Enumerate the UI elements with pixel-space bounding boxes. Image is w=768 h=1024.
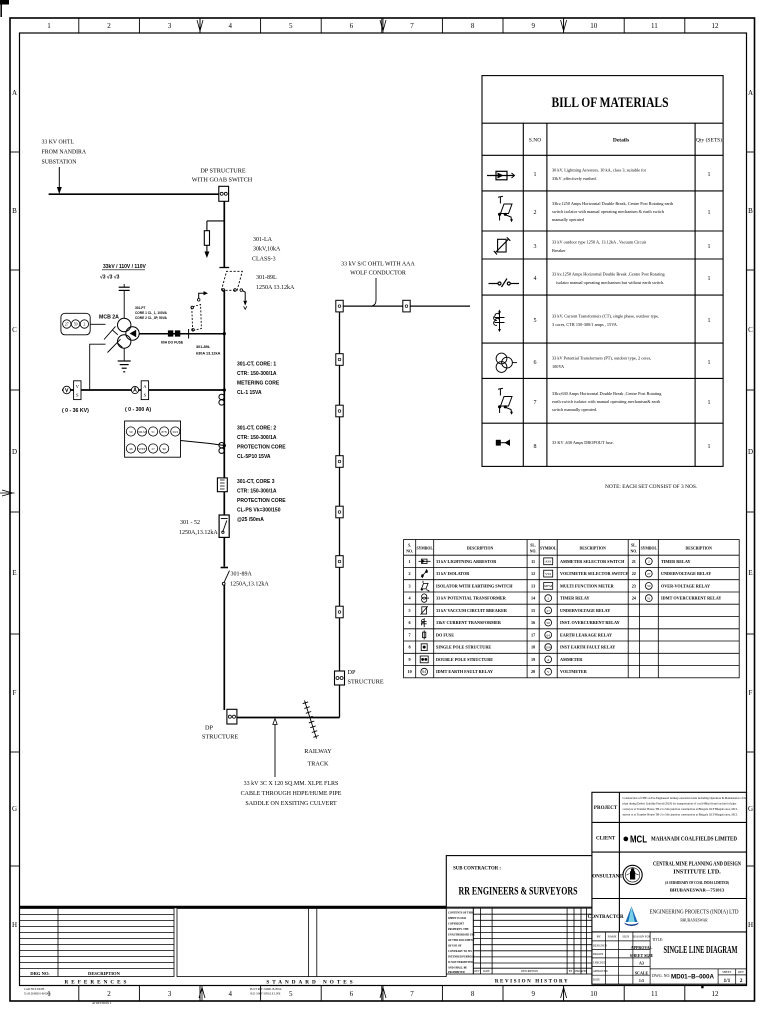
DP structure box (GOAB)	[219, 186, 229, 201]
right top horizontal wire	[340, 305, 471, 307]
svg-text:7: 7	[410, 22, 414, 30]
svg-text:E: E	[748, 569, 752, 577]
svg-text:5: 5	[289, 22, 293, 30]
svg-text:D: D	[12, 448, 17, 456]
svg-text:DESCRIPTION: DESCRIPTION	[88, 971, 121, 976]
svg-text:SYMBOL: SYMBOL	[641, 547, 658, 551]
svg-text:51: 51	[647, 597, 651, 601]
svg-text:3: 3	[168, 22, 172, 30]
svg-text:ENGINEERING PROJECTS (INDIA) L: ENGINEERING PROJECTS (INDIA) LTD	[650, 909, 739, 916]
svg-text:PROPERTY. THE: PROPERTY. THE	[448, 928, 469, 931]
CT core2	[219, 443, 224, 448]
svg-text:2: 2	[409, 571, 411, 576]
svg-text:21: 21	[632, 559, 636, 564]
svg-text:20: 20	[531, 669, 535, 674]
bottom left small table	[592, 932, 747, 984]
svg-text:(A SUBSIDIARY OF COAL INDIA: (A SUBSIDIARY OF COAL INDIA LIMITED)	[665, 880, 729, 885]
svg-text:DESIGNED: DESIGNED	[593, 945, 607, 948]
svg-text:STRUCTURE: STRUCTURE	[348, 679, 384, 686]
svg-text:X:\SLD\MD01-B-000A: X:\SLD\MD01-B-000A	[24, 993, 51, 996]
tick before isolator	[188, 329, 190, 339]
svg-text:CTR: 150-300/1A: CTR: 150-300/1A	[237, 435, 277, 441]
svg-text:33 kV VACCUM CIRCUIT BREAKER: 33 kV VACCUM CIRCUIT BREAKER	[436, 608, 508, 613]
svg-text:A3: A3	[639, 961, 644, 966]
svg-text:12: 12	[712, 990, 720, 998]
svg-text:STRUCTURE: STRUCTURE	[202, 734, 238, 741]
svg-text:18: 18	[531, 645, 535, 650]
svg-text:MAHANADI COALFIELDS LIMITED: MAHANADI COALFIELDS LIMITED	[651, 836, 737, 843]
svg-text:METERING CORE: METERING CORE	[237, 381, 280, 387]
incoming arrow	[58, 167, 60, 189]
svg-text:630A 13.12kA: 630A 13.12kA	[196, 352, 221, 356]
protection relay group	[125, 421, 181, 457]
svg-text:1:5: 1:5	[639, 978, 644, 983]
svg-text:AMMETER: AMMETER	[560, 657, 583, 662]
svg-text:64: 64	[422, 670, 426, 674]
svg-text:SHEET IS OUR: SHEET IS OUR	[448, 917, 466, 920]
BOM symbol row7: isolator with earth switch 630A	[498, 388, 513, 415]
svg-text:TITLE:: TITLE:	[652, 938, 663, 942]
svg-text:Construction of CHP on Pre-Eng: Construction of CHP on Pre-Engineered tu…	[623, 796, 748, 800]
svg-text:CTR: 150-300/1A: CTR: 150-300/1A	[237, 371, 277, 377]
svg-text:301-89L: 301-89L	[196, 345, 211, 349]
svg-text:REV: REV	[474, 970, 479, 973]
centring marks	[0, 18, 567, 1001]
svg-text:2: 2	[107, 22, 111, 30]
svg-text:33 kV LIGHTNING ARRESTOR: 33 kV LIGHTNING ARRESTOR	[436, 559, 497, 564]
junction node metering tap	[223, 388, 226, 391]
svg-text:manually operated: manually operated	[552, 217, 585, 222]
svg-text:B: B	[12, 207, 17, 215]
side grid dividers	[10, 152, 755, 866]
svg-text:27: 27	[547, 609, 551, 613]
svg-text:CL-1 15VA: CL-1 15VA	[237, 390, 262, 396]
svg-text:CONSULTANT: CONSULTANT	[589, 875, 624, 880]
svg-text:S.NO: S.NO	[529, 138, 541, 144]
svg-text:VOLTMETER: VOLTMETER	[560, 669, 588, 674]
BOM details text	[552, 168, 674, 447]
svg-text:CL-5P10 15VA: CL-5P10 15VA	[237, 454, 271, 460]
svg-text:87N: 87N	[161, 430, 167, 434]
svg-text:INSTITUTE LTD.: INSTITUTE LTD.	[673, 870, 721, 876]
earthing above PT	[123, 284, 125, 287]
svg-text:2: 2	[83, 323, 85, 327]
earth switch of 89L (right side hook with down arrow)	[240, 289, 243, 292]
svg-text:WITH GOAB SWITCH: WITH GOAB SWITCH	[192, 177, 253, 184]
svg-text:301-CT, CORE: 2: 301-CT, CORE: 2	[237, 426, 276, 432]
svg-text:27: 27	[152, 447, 156, 451]
svg-text:STANDARD NOTES: STANDARD NOTES	[266, 980, 355, 986]
svg-text:SCALE: SCALE	[635, 971, 649, 976]
svg-text:50: 50	[547, 621, 551, 625]
svg-text:AMMETER SELECTOR SWITCH: AMMETER SELECTOR SWITCH	[560, 559, 625, 564]
wire incoming horizontal	[49, 193, 219, 195]
tiny footer texts	[24, 988, 282, 1005]
svg-text:D: D	[748, 448, 753, 456]
svg-text:VSS: VSS	[545, 572, 551, 576]
BOM symbol row1: lightning arrestor	[487, 171, 515, 180]
svg-text:REFERENCES: REFERENCES	[65, 980, 130, 986]
svg-text:19: 19	[531, 657, 535, 662]
svg-text:UNDERVOLTAGE RELAY: UNDERVOLTAGE RELAY	[560, 608, 610, 613]
svg-text:6: 6	[350, 22, 354, 30]
svg-text:S: S	[76, 393, 79, 398]
svg-text:1: 1	[47, 22, 51, 30]
svg-text:50: 50	[129, 430, 133, 434]
svg-text:Details: Details	[613, 138, 629, 144]
svg-text:8: 8	[534, 444, 537, 450]
svg-text:5: 5	[409, 608, 411, 613]
svg-text:SL.: SL.	[631, 544, 637, 548]
svg-text:NAME: NAME	[608, 935, 617, 939]
svg-text:Qty (SETS): Qty (SETS)	[696, 137, 722, 144]
voltmeter	[63, 386, 71, 394]
svg-text:4: 4	[228, 990, 232, 998]
BOM symbol row4: isolator without earth	[489, 279, 520, 288]
svg-text:S: S	[144, 393, 147, 398]
svg-text:301-PT: 301-PT	[135, 306, 146, 310]
isolator 301-89L parallelogram	[221, 271, 242, 290]
svg-text:9: 9	[531, 990, 535, 998]
svg-text:1: 1	[708, 244, 711, 250]
svg-text:33 kV S/C OHTL WITH AAA: 33 kV S/C OHTL WITH AAA	[341, 262, 415, 268]
svg-text:CORE 2 CL_3P, 50VA: CORE 2 CL_3P, 50VA	[135, 316, 167, 320]
svg-text:PLOT REF: MD01-B-000A: PLOT REF: MD01-B-000A	[250, 988, 282, 991]
svg-text:BY: BY	[569, 970, 573, 973]
svg-text:11: 11	[531, 559, 535, 564]
svg-text:SADDLE ON EXSITING CULVERT: SADDLE ON EXSITING CULVERT	[245, 801, 337, 807]
svg-text:301-89L: 301-89L	[256, 275, 277, 281]
svg-text:OF THIS DOCUMENT: OF THIS DOCUMENT	[448, 939, 475, 942]
svg-text:TIMER RELAY: TIMER RELAY	[560, 596, 590, 601]
svg-text:7: 7	[410, 990, 414, 998]
svg-text:1/1: 1/1	[723, 978, 730, 984]
copyright box	[446, 908, 473, 974]
PT core label	[135, 306, 168, 320]
bottom grid dividers	[79, 986, 685, 1002]
BOM S.NO numbers	[534, 172, 537, 450]
CT core3	[217, 478, 227, 492]
wire down to DP	[223, 585, 225, 710]
svg-text:APPROVED: APPROVED	[593, 970, 608, 973]
standard notes boxes	[177, 909, 446, 977]
svg-text:BHUBANESWAR: BHUBANESWAR	[680, 919, 708, 923]
grid numbers bottom	[47, 990, 719, 998]
DP structure with GOAB label	[192, 168, 253, 184]
svg-text:301-LA: 301-LA	[253, 237, 273, 243]
project description tiny text	[623, 796, 748, 817]
sub contractor box	[446, 856, 592, 908]
svg-text:301-CT, CORE: 1: 301-CT, CORE: 1	[237, 362, 276, 368]
svg-text:CONTENTS OF THIS: CONTENTS OF THIS	[448, 912, 474, 915]
svg-text:96: 96	[163, 447, 167, 451]
svg-text:SUBSTATION: SUBSTATION	[42, 160, 78, 166]
svg-text:INST EARTH FAULT RELAY: INST EARTH FAULT RELAY	[560, 645, 615, 650]
svg-text:G: G	[12, 805, 17, 813]
svg-text:7: 7	[534, 400, 537, 406]
svg-text:MFM: MFM	[544, 584, 552, 588]
svg-text:PROTECTION CORE: PROTECTION CORE	[237, 445, 286, 451]
svg-text:plant during Defect Liability: plant during Defect Liability Period (DL…	[623, 802, 737, 806]
contractor EPI logo	[624, 907, 639, 927]
svg-text:conveyor at Transfer House TH-: conveyor at Transfer House TH-2 to Silo …	[623, 807, 738, 811]
svg-text:DOUBLE POLE STRUCTURE: DOUBLE POLE STRUCTURE	[436, 657, 493, 662]
single pole structure P3	[336, 354, 343, 366]
svg-text:MD01–B–000A: MD01–B–000A	[671, 975, 715, 981]
relay group 27 59 2	[61, 313, 90, 335]
lightning arrester 301-LA	[204, 231, 209, 246]
client MCL logo	[623, 833, 738, 846]
svg-text:NOTE: EACH SET CONSIST OF 3 NO: NOTE: EACH SET CONSIST OF 3 NOS.	[605, 484, 697, 490]
grid numbers top	[47, 22, 719, 30]
svg-text:8: 8	[471, 990, 475, 998]
svg-text:59: 59	[647, 584, 651, 588]
svg-text:switch manually operated.: switch manually operated.	[552, 407, 597, 412]
svg-text:IDMT OVERCURRENT RELAY: IDMT OVERCURRENT RELAY	[661, 596, 721, 601]
svg-text:51: 51	[152, 430, 156, 434]
svg-text:5: 5	[289, 990, 293, 998]
svg-text:AND SHALL BE: AND SHALL BE	[448, 967, 467, 970]
svg-text:DRG NO.: DRG NO.	[30, 971, 49, 976]
svg-text:DP: DP	[348, 669, 356, 676]
svg-text:SL.: SL.	[530, 544, 536, 548]
svg-text:SHEET: SHEET	[722, 970, 732, 974]
bottom horizontal wire	[237, 717, 340, 719]
svg-text:9: 9	[409, 657, 411, 662]
svg-text:60A DO FUSE: 60A DO FUSE	[161, 341, 184, 345]
BOM symbol row5: current transformer	[494, 310, 505, 333]
svg-text:TRACK: TRACK	[308, 761, 330, 768]
small dot under titleblock	[701, 986, 703, 988]
svg-text:CORE 1 CL_1, 100VA: CORE 1 CL_1, 100VA	[135, 311, 168, 315]
svg-text:RAILWAY: RAILWAY	[304, 748, 332, 755]
svg-text:NO.: NO.	[530, 550, 537, 554]
svg-text:VOLTMETER SELECTOR SWITCH: VOLTMETER SELECTOR SWITCH	[560, 571, 630, 576]
main wire down	[223, 201, 225, 267]
svg-text:1: 1	[708, 172, 711, 178]
svg-text:2: 2	[107, 990, 111, 998]
svg-text:UNAUTHORISED USE: UNAUTHORISED USE	[448, 934, 475, 937]
svg-text:switch isolator with manual op: switch isolator with manual operating me…	[552, 209, 665, 214]
svg-text:A: A	[12, 89, 17, 97]
svg-text:1: 1	[708, 318, 711, 324]
svg-text:MCB 2A: MCB 2A	[99, 315, 119, 321]
DP structure box bottom	[227, 709, 237, 724]
svg-text:1250A,13.12kA: 1250A,13.12kA	[230, 582, 269, 588]
svg-text:1: 1	[708, 210, 711, 216]
svg-text:46: 46	[129, 447, 133, 451]
right vertical wire	[339, 306, 341, 717]
svg-text:( 0 - 300 A): ( 0 - 300 A)	[125, 407, 151, 413]
svg-text:NO.: NO.	[406, 550, 413, 554]
svg-text:12: 12	[712, 22, 720, 30]
svg-text:11: 11	[651, 990, 658, 998]
svg-text:2: 2	[648, 560, 650, 564]
svg-text:DESCRIPTION: DESCRIPTION	[580, 547, 607, 551]
svg-text:CAD FILE PATH :: CAD FILE PATH :	[24, 988, 46, 991]
svg-text:AT REVISION 2: AT REVISION 2	[92, 1002, 112, 1005]
svg-text:10: 10	[590, 22, 598, 30]
single pole structure P6	[336, 506, 343, 518]
svg-text:DP STRUCTURE: DP STRUCTURE	[200, 168, 246, 175]
svg-text:SIGN: SIGN	[622, 935, 630, 939]
svg-text:UNDERVOLTAGE RELAY: UNDERVOLTAGE RELAY	[661, 571, 711, 576]
PT ratio label	[100, 264, 146, 281]
svg-text:301 - 52: 301 - 52	[180, 520, 200, 526]
right DP structure box	[335, 671, 345, 685]
wire relay box to CT2	[181, 441, 225, 446]
svg-text:E: E	[12, 569, 16, 577]
svg-text:1250A 13.12kA: 1250A 13.12kA	[256, 285, 295, 291]
svg-text:C: C	[748, 326, 753, 334]
svg-text:33kV / 110V / 110V: 33kV / 110V / 110V	[103, 264, 146, 270]
svg-text:CENTRAL MINE PLANNING AND DESI: CENTRAL MINE PLANNING AND DESIGN	[653, 862, 741, 868]
svg-text:5: 5	[534, 318, 537, 324]
svg-text:FROM NANDIRA: FROM NANDIRA	[42, 150, 87, 156]
main wire down to metering tee	[223, 290, 225, 390]
svg-text:CONTRARY TO ITS: CONTRARY TO ITS	[448, 950, 472, 953]
svg-text:PROTECTION CORE: PROTECTION CORE	[237, 498, 286, 504]
svg-text:2: 2	[740, 978, 743, 984]
junction node CT2 tap	[223, 444, 226, 447]
svg-text:SLD 33KV SINGLE LINE: SLD 33KV SINGLE LINE	[250, 993, 281, 996]
top grid dividers	[79, 18, 685, 33]
svg-text:50N: 50N	[545, 646, 551, 650]
svg-text:CL-PS Vk=300/150: CL-PS Vk=300/150	[237, 508, 281, 514]
svg-text:PROHIBITED: PROHIBITED	[448, 971, 465, 974]
svg-text:A: A	[748, 89, 753, 97]
operating arrow of PT isolator	[197, 299, 200, 302]
svg-text:SINGLE POLE STRUCTURE: SINGLE POLE STRUCTURE	[436, 645, 491, 650]
svg-text:27: 27	[647, 572, 651, 576]
svg-text:Breaker: Breaker	[552, 248, 566, 253]
svg-text:30kV,10kA: 30kV,10kA	[253, 247, 281, 253]
svg-text:27: 27	[65, 323, 69, 327]
cable callout arrow	[274, 724, 276, 777]
svg-text:F: F	[13, 689, 17, 697]
svg-text:1: 1	[409, 559, 411, 564]
DO fuses on PT tap	[168, 331, 173, 337]
svg-text:7: 7	[409, 632, 411, 637]
svg-text:( 0 - 36 KV): ( 0 - 36 KV)	[62, 408, 89, 414]
svg-text:H: H	[748, 921, 753, 929]
svg-text:CONTRACTOR: CONTRACTOR	[588, 915, 624, 920]
svg-text:6: 6	[350, 990, 354, 998]
svg-text:33 kV POTENTIAL TRANSFORMER: 33 kV POTENTIAL TRANSFORMER	[436, 596, 507, 601]
svg-text:G: G	[748, 805, 753, 813]
single pole structure P2	[403, 300, 410, 312]
single pole structure P8	[336, 606, 343, 618]
svg-text:1: 1	[708, 400, 711, 406]
wire down	[223, 390, 225, 478]
svg-text:F: F	[749, 689, 753, 697]
corner registration mark	[0, 0, 9, 5]
svg-text:√3 √3 √3: √3 √3 √3	[100, 275, 120, 281]
svg-text:DESCRIPTION: DESCRIPTION	[467, 547, 494, 551]
BOM symbol row6: potential transformer	[496, 353, 517, 372]
svg-text:@25 /50mA: @25 /50mA	[237, 517, 264, 523]
svg-text:ISOLATOR WITH EARTHING SWITCH: ISOLATOR WITH EARTHING SWITCH	[436, 583, 513, 588]
svg-text:OVER-VOLTAGE RELAY: OVER-VOLTAGE RELAY	[661, 583, 710, 588]
PT tap wire to main	[139, 333, 224, 335]
svg-text:earth switch isolator with man: earth switch isolator with manual operat…	[552, 399, 661, 404]
svg-text:ASS: ASS	[545, 560, 551, 564]
tee to lightning arrester	[207, 220, 224, 222]
svg-text:OF USE OF: OF USE OF	[448, 945, 462, 948]
svg-text:B: B	[748, 207, 753, 215]
svg-text:DRAWN: DRAWN	[593, 953, 603, 956]
svg-text:10: 10	[590, 990, 598, 998]
svg-text:H: H	[12, 921, 17, 929]
svg-text:BHUBANESWAR—751013: BHUBANESWAR—751013	[670, 888, 725, 893]
svg-text:RR ENGINEERS & SURVEYORS: RR ENGINEERS & SURVEYORS	[459, 886, 578, 898]
railway track crossing	[303, 701, 319, 739]
svg-text:22: 22	[632, 571, 636, 576]
svg-text:33 kV 3C X 120 SQ.MM. XLPE FLR: 33 kV 3C X 120 SQ.MM. XLPE FLRS	[244, 781, 339, 787]
breaker 301-52	[219, 515, 229, 537]
svg-text:CABLE THROUGH HDPE/HUME PIPE: CABLE THROUGH HDPE/HUME PIPE	[241, 791, 342, 797]
svg-text:3: 3	[409, 583, 411, 588]
wire relay to MCB	[90, 323, 105, 325]
svg-text:APPD: APPD	[580, 970, 587, 973]
svg-text:INST. OVERCURRENT RELAY: INST. OVERCURRENT RELAY	[560, 620, 620, 625]
PT 301-PT	[118, 318, 131, 331]
svg-text:DESCRIPTION: DESCRIPTION	[521, 970, 538, 973]
svg-text:9: 9	[531, 22, 535, 30]
wolf conductor label	[341, 262, 415, 277]
svg-text:WOLF CONDUCTOR: WOLF CONDUCTOR	[350, 271, 406, 277]
svg-text:DATE: DATE	[593, 979, 600, 982]
svg-text:DO FUSE: DO FUSE	[436, 632, 454, 637]
svg-text:301-89A: 301-89A	[231, 572, 253, 578]
svg-text:COPYRIGHT: COPYRIGHT	[448, 923, 464, 926]
svg-text:4: 4	[534, 276, 537, 282]
svg-text:13: 13	[531, 583, 535, 588]
single pole structure P4	[336, 405, 343, 417]
svg-text:6: 6	[409, 620, 411, 625]
svg-text:1: 1	[708, 360, 711, 366]
svg-text:2: 2	[534, 210, 537, 216]
svg-text:12: 12	[531, 571, 535, 576]
svg-text:REVISION HISTORY: REVISION HISTORY	[495, 980, 569, 985]
svg-text:33kV CURRENT TRANSFORMER: 33kV CURRENT TRANSFORMER	[436, 620, 502, 625]
svg-text:IDMT EARTH FAULT RELAY: IDMT EARTH FAULT RELAY	[436, 669, 493, 674]
svg-text:INTENDED PURPOSE: INTENDED PURPOSE	[448, 956, 475, 959]
svg-text:DESCRIPTION: DESCRIPTION	[686, 547, 713, 551]
svg-text:●: ●	[623, 833, 630, 845]
svg-text:MCL: MCL	[630, 834, 647, 846]
svg-text:CHECKED: CHECKED	[593, 962, 606, 965]
BOM symbol row2: isolator with earth switch	[498, 196, 513, 222]
isolator 301-89L top contact	[219, 267, 229, 269]
svg-text:REV: REV	[738, 970, 745, 974]
BOM symbol row8: dropout fuse	[496, 440, 509, 445]
svg-text:23: 23	[632, 583, 636, 588]
svg-text:C: C	[12, 326, 17, 334]
svg-text:17: 17	[531, 632, 535, 637]
svg-text:IS NOT PERMITTED: IS NOT PERMITTED	[448, 961, 473, 964]
single pole structure P7	[336, 556, 343, 568]
svg-text:16: 16	[531, 620, 535, 625]
incoming feeder label	[42, 140, 87, 166]
svg-text:NO.: NO.	[630, 550, 637, 554]
svg-text:1: 1	[534, 172, 537, 178]
svg-text:SHEET SIZE: SHEET SIZE	[630, 953, 654, 958]
svg-text:PROJECT: PROJECT	[594, 806, 618, 811]
svg-text:CTR: 150-300/1A: CTR: 150-300/1A	[237, 489, 277, 495]
svg-text:15: 15	[531, 608, 535, 613]
svg-text:3: 3	[534, 244, 537, 250]
